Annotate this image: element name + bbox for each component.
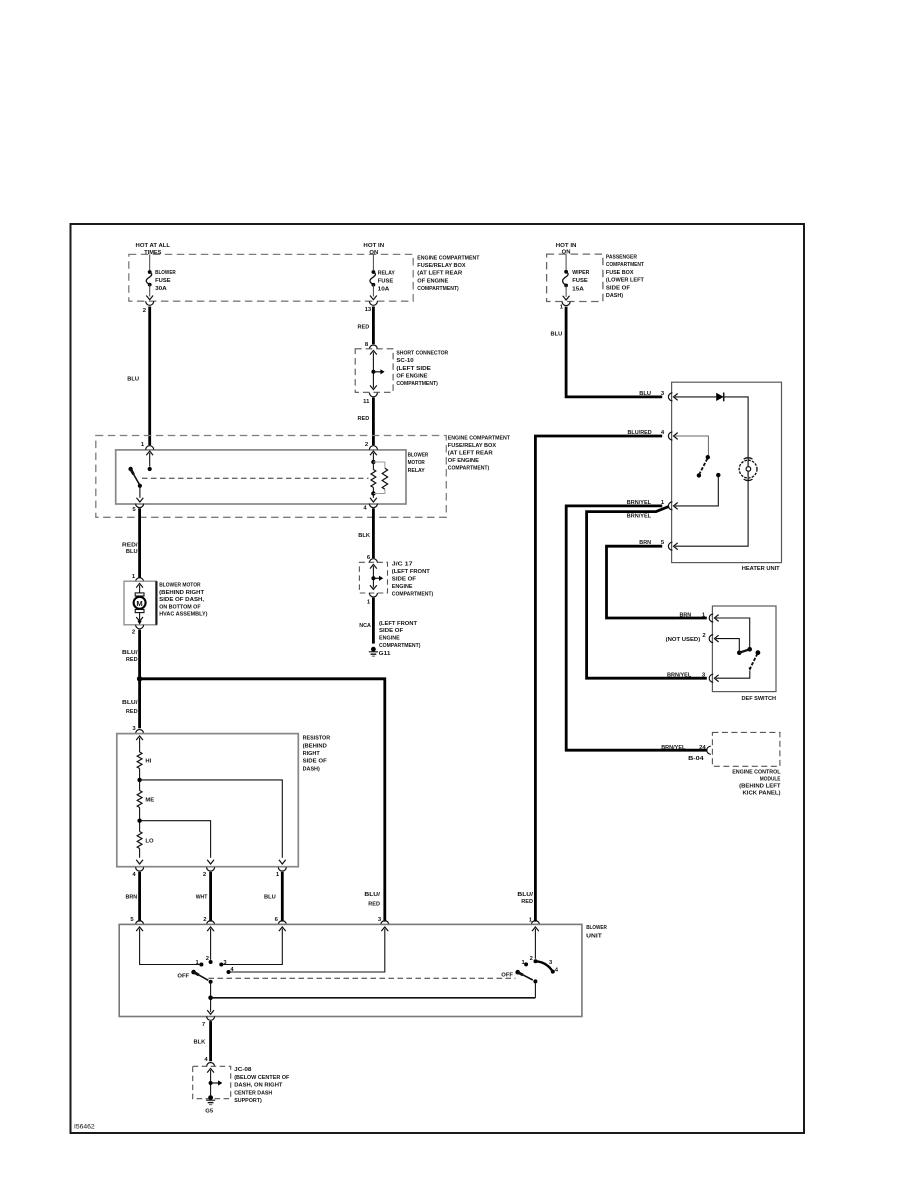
junction connector JC-08 (dashed box) — [193, 1066, 231, 1098]
svg-text:ENGINE: ENGINE — [392, 584, 413, 590]
relay coil — [371, 460, 388, 496]
blower unit pin 6 internal — [223, 927, 286, 965]
svg-text:HOT IN: HOT IN — [363, 243, 384, 249]
svg-text:SHORT CONNECTOR: SHORT CONNECTOR — [396, 351, 448, 357]
heater pin 1 connector — [627, 500, 673, 510]
svg-text:RED: RED — [358, 416, 370, 422]
node tap 1 — [137, 769, 141, 791]
speed switch bridge arc — [536, 960, 554, 971]
fuse lead wire — [149, 254, 151, 270]
connector pin 1 entry (blower motor) — [132, 574, 144, 582]
svg-text:SUPPORT): SUPPORT) — [234, 1098, 262, 1104]
svg-text:(NOT USED): (NOT USED) — [666, 637, 701, 643]
wire BLU blower-fuse to relay pin 1 — [148, 307, 151, 446]
connector pin 2 exit — [203, 867, 215, 878]
label JC-08 — [234, 1067, 290, 1104]
label HOT IN ON (wiper fuse) — [556, 243, 577, 256]
heater switch contact — [674, 473, 721, 509]
svg-text:JC-08: JC-08 — [234, 1067, 252, 1073]
svg-text:B-04: B-04 — [688, 756, 704, 762]
label BRN/YEL second — [627, 514, 652, 520]
def pin 3 internal — [714, 671, 749, 682]
svg-text:COMPARTMENT): COMPARTMENT) — [379, 643, 420, 649]
svg-text:RED: RED — [126, 709, 138, 715]
label BRN/YEL 24 B-04 — [661, 745, 706, 762]
svg-text:(BELOW CENTER OF: (BELOW CENTER OF — [234, 1075, 290, 1081]
svg-text:BLU/: BLU/ — [122, 700, 138, 706]
label BLU — [127, 377, 139, 383]
fuse lead wire — [565, 254, 567, 270]
wire NCA to ground G11 — [372, 598, 375, 644]
svg-text:HOT AT ALL: HOT AT ALL — [136, 243, 171, 249]
wire lamp to pin 5 — [674, 477, 749, 549]
resistor LO — [137, 832, 154, 849]
svg-text:SIDE OF: SIDE OF — [606, 285, 631, 291]
def switch arm — [748, 650, 760, 671]
svg-text:BLOWER: BLOWER — [155, 270, 176, 276]
svg-text:FUSE: FUSE — [378, 278, 394, 284]
svg-text:DASH): DASH) — [606, 293, 623, 299]
svg-text:(BEHIND LEFT: (BEHIND LEFT — [739, 784, 781, 790]
connector pin 1 exit — [276, 867, 286, 878]
svg-text:G5: G5 — [205, 1108, 214, 1114]
heater pin 3 connector — [639, 391, 672, 401]
def pin 3 connector — [667, 672, 713, 682]
svg-text:ENGINE CONTROL: ENGINE CONTROL — [732, 770, 781, 776]
svg-text:BLU: BLU — [127, 377, 139, 383]
blower unit pin 1 internal — [532, 927, 539, 959]
svg-text:30A: 30A — [155, 286, 168, 292]
svg-text:TIMES: TIMES — [144, 250, 161, 256]
def pin 2 connector — [666, 633, 714, 643]
def switch box — [712, 606, 776, 692]
svg-text:DASH, ON RIGHT: DASH, ON RIGHT — [234, 1083, 283, 1089]
svg-text:FUSE: FUSE — [572, 278, 588, 284]
svg-text:BLU/: BLU/ — [364, 892, 380, 898]
svg-text:11: 11 — [363, 399, 370, 405]
short connector SC-10 (dashed box) — [355, 349, 393, 393]
heater pin 4 connector — [628, 430, 673, 440]
resistor input — [136, 736, 143, 752]
svg-text:BLU/: BLU/ — [122, 650, 138, 656]
svg-text:COMPARTMENT): COMPARTMENT) — [448, 465, 489, 471]
connector pin 8 entry — [365, 342, 377, 349]
label ENGINE CONTROL MODULE — [732, 770, 781, 797]
svg-text:WIPER: WIPER — [572, 270, 590, 276]
svg-text:COMPARTMENT): COMPARTMENT) — [392, 592, 433, 598]
fan switch contact 1 — [195, 960, 203, 967]
switch common link wire — [211, 997, 536, 999]
label BLOWER UNIT — [586, 925, 607, 939]
fuse WIPER FUSE 15A — [563, 270, 568, 297]
svg-text:(AT LEFT REAR: (AT LEFT REAR — [448, 450, 494, 456]
svg-text:FUSE: FUSE — [155, 278, 171, 284]
svg-text:BRN: BRN — [126, 895, 138, 901]
svg-text:BLOWER: BLOWER — [408, 452, 429, 458]
wire BLU — [264, 872, 282, 922]
resistor box — [117, 734, 298, 867]
fan switch contact 2 — [206, 956, 213, 964]
svg-text:RIGHT: RIGHT — [303, 751, 321, 757]
label WIPER FUSE 15A — [572, 270, 590, 292]
wire BLU/RED branch to blower unit pin 3 — [140, 679, 385, 922]
svg-text:(BEHIND: (BEHIND — [303, 743, 327, 749]
svg-text:BLK: BLK — [358, 533, 370, 539]
label DEF SWITCH — [742, 696, 777, 702]
label BLOWER MOTOR — [159, 583, 207, 618]
label HEATER UNIT — [742, 566, 780, 572]
heater switch S1 — [697, 455, 710, 478]
label BLOWER MOTOR RELAY — [408, 452, 429, 473]
lamp L1 illumination bulb — [739, 458, 757, 481]
resistor HI — [137, 752, 151, 769]
svg-text:OFF: OFF — [177, 974, 189, 980]
svg-text:PASSENGER: PASSENGER — [606, 255, 638, 261]
svg-text:RED/: RED/ — [122, 542, 138, 548]
svg-text:G11: G11 — [379, 651, 391, 657]
svg-text:HOT IN: HOT IN — [556, 243, 577, 249]
svg-text:OF ENGINE: OF ENGINE — [448, 458, 479, 464]
svg-text:SIDE OF DASH,: SIDE OF DASH, — [159, 597, 204, 603]
label RELAY FUSE 10A — [378, 270, 395, 292]
svg-text:ME: ME — [145, 797, 154, 803]
heater unit box — [672, 382, 782, 562]
junction connector J/C 17 (dashed box) — [359, 562, 387, 593]
svg-text:2: 2 — [206, 956, 209, 962]
connector pin 1 exit — [367, 593, 377, 606]
svg-text:M: M — [136, 599, 142, 608]
wire RED relay-fuse to SC-10 pin 8 — [372, 307, 375, 345]
wire BLK blower unit to JC-08 — [194, 1021, 211, 1061]
fan switch arm — [177, 970, 212, 984]
SC-10 internal — [370, 350, 385, 389]
svg-text:ON BOTTOM OF: ON BOTTOM OF — [159, 604, 201, 610]
label BLU/RED — [122, 700, 138, 715]
label RED — [358, 416, 370, 422]
page border frame — [71, 224, 805, 1133]
svg-text:FUSE/RELAY BOX: FUSE/RELAY BOX — [417, 263, 465, 269]
connector pin 13 exit (relay fuse) — [365, 296, 378, 313]
svg-text:CENTER DASH: CENTER DASH — [234, 1090, 272, 1096]
svg-text:RED: RED — [368, 901, 380, 907]
passenger compartment fuse box (dashed) — [547, 254, 603, 301]
label SHORT CONNECTOR SC-10 — [396, 351, 448, 387]
svg-text:BLU/: BLU/ — [517, 892, 533, 898]
def switch wiper contact — [737, 649, 750, 655]
label HOT IN ON (relay fuse) — [363, 243, 384, 256]
svg-text:BLU: BLU — [639, 391, 651, 397]
node tap 2 — [137, 808, 141, 832]
resistor LO out — [136, 849, 143, 865]
svg-text:BLK: BLK — [194, 1039, 206, 1045]
label BLOWER FUSE 30A — [155, 270, 176, 292]
svg-text:BRN: BRN — [680, 612, 692, 618]
blower unit pin 5 internal — [136, 927, 199, 965]
wire BLK relay pin4 to J/C 17 — [372, 508, 375, 558]
svg-text:COMPARTMENT: COMPARTMENT — [606, 262, 644, 268]
svg-text:OF ENGINE: OF ENGINE — [396, 373, 427, 379]
heater pin 3 internal wire — [674, 394, 717, 401]
svg-text:SC-10: SC-10 — [396, 358, 414, 364]
label engine compartment fuse/relay box — [417, 256, 479, 292]
fan switch common — [208, 982, 213, 1012]
J/C 17 internal — [370, 564, 383, 589]
label engine compartment fuse/relay box 2 — [448, 435, 510, 471]
connector pin 1 exit (wiper fuse) — [560, 296, 570, 311]
connector pin 4 entry (JC-08) — [204, 1057, 214, 1067]
svg-text:OF ENGINE: OF ENGINE — [417, 278, 448, 284]
relay switch arm — [128, 467, 139, 486]
heater pin 4 internal wire — [674, 433, 709, 455]
wire BRN/YEL to def switch pin 3 — [587, 506, 707, 678]
label BLU/RED — [122, 650, 138, 663]
speed switch contact 1 — [521, 960, 528, 966]
svg-text:(AT LEFT REAR: (AT LEFT REAR — [417, 271, 463, 277]
svg-text:SIDE OF: SIDE OF — [303, 759, 328, 765]
svg-text:DEF SWITCH: DEF SWITCH — [742, 696, 777, 702]
svg-text:BRN/YEL: BRN/YEL — [627, 514, 652, 520]
relay fixed contact — [148, 467, 152, 471]
svg-text:RELAY: RELAY — [378, 270, 395, 276]
figure number I56462 — [74, 1125, 95, 1131]
connector pin 2 exit (blower motor) — [132, 625, 144, 636]
svg-text:RESISTOR: RESISTOR — [303, 736, 331, 742]
blower motor relay box — [116, 450, 406, 504]
svg-text:RED: RED — [358, 324, 370, 330]
OFF dashed line — [209, 977, 516, 979]
svg-text:10A: 10A — [378, 286, 391, 292]
label RED/BLU — [122, 542, 138, 555]
svg-text:MOTOR: MOTOR — [408, 460, 426, 466]
wire diode to lamp branch — [724, 397, 748, 461]
svg-text:I56462: I56462 — [74, 1125, 95, 1131]
svg-text:DASH): DASH) — [303, 766, 320, 772]
def pin 1 internal — [714, 615, 752, 652]
wire BLU wiper fuse to heater pin 3 — [566, 307, 662, 397]
svg-text:(LOWER LEFT: (LOWER LEFT — [606, 278, 644, 284]
relay pin 1 connector — [141, 442, 154, 466]
wire BRN — [126, 872, 140, 922]
svg-text:2: 2 — [530, 956, 533, 962]
relay moving contact — [137, 484, 144, 502]
wire BRN heater pin5 to def switch pin 1 — [607, 546, 707, 618]
label BLU/RED — [364, 892, 380, 907]
label BLU — [551, 331, 563, 337]
connector pin 3 entry (resistor) — [132, 726, 143, 733]
speed switch arm — [501, 970, 537, 984]
svg-text:BLU: BLU — [264, 895, 276, 901]
svg-text:15A: 15A — [572, 286, 585, 292]
diode D1 — [716, 393, 724, 402]
fuse RELAY FUSE 10A — [370, 270, 375, 296]
svg-text:SIDE OF: SIDE OF — [392, 577, 417, 583]
svg-text:(LEFT FRONT: (LEFT FRONT — [392, 569, 430, 575]
speed switch contact 4 — [551, 967, 559, 973]
speed switch contact 2 — [530, 956, 538, 963]
svg-text:OFF: OFF — [501, 973, 513, 979]
connector B-04 entry — [707, 746, 711, 754]
fuse BLOWER FUSE 30A — [146, 270, 151, 296]
wire tap to pin 2 — [140, 821, 214, 864]
svg-text:HEATER UNIT: HEATER UNIT — [742, 566, 780, 572]
svg-text:J/C 17: J/C 17 — [392, 562, 414, 568]
resistor ME — [137, 791, 154, 808]
wire BLU/RED motor to junction — [138, 630, 141, 729]
wire BLU/RED heater pin4 to blower unit — [535, 436, 662, 922]
label G11 location — [379, 621, 421, 657]
relay coil actuation dashed line — [142, 477, 369, 479]
blower unit pins entry — [130, 917, 539, 924]
svg-text:FUSE BOX: FUSE BOX — [606, 270, 634, 276]
label RESISTOR — [303, 736, 331, 773]
wire WHT — [196, 872, 211, 922]
wire BRN/YEL heater pin1 to ECM — [566, 506, 707, 750]
blower unit pin 2 internal — [207, 927, 214, 960]
svg-text:BRN/YEL: BRN/YEL — [667, 672, 692, 678]
svg-text:WHT: WHT — [196, 895, 208, 901]
svg-text:COMPARTMENT): COMPARTMENT) — [417, 286, 458, 292]
wire tap to pin 1 — [140, 780, 286, 864]
wire RED SC-10 to relay pin 2 — [372, 398, 375, 446]
svg-text:KICK PANEL): KICK PANEL) — [743, 790, 781, 796]
wire RED/BLU relay pin5 to blower motor — [138, 508, 141, 578]
svg-text:COMPARTMENT): COMPARTMENT) — [396, 381, 437, 387]
label HOT AT ALL TIMES — [136, 243, 171, 256]
fan switch contact 4 — [227, 967, 235, 974]
heater pin 5 connector — [639, 540, 672, 550]
svg-text:(BEHIND RIGHT: (BEHIND RIGHT — [159, 590, 204, 596]
svg-text:BLU: BLU — [126, 549, 138, 555]
junction node — [137, 676, 142, 681]
def pin 2 internal — [714, 635, 739, 650]
label RED — [358, 324, 370, 330]
svg-text:UNIT: UNIT — [586, 933, 602, 939]
blower unit pin 3 internal — [230, 927, 388, 972]
svg-text:BLOWER MOTOR: BLOWER MOTOR — [159, 583, 201, 589]
svg-text:RED: RED — [126, 657, 138, 663]
relay pin 4 connector — [363, 494, 377, 512]
svg-text:SIDE OF: SIDE OF — [379, 628, 404, 634]
label BLK — [358, 533, 370, 539]
ground G11 — [369, 647, 378, 656]
connector pin 4 exit — [132, 867, 143, 878]
def pin 1 connector — [680, 612, 714, 622]
svg-text:24: 24 — [699, 745, 706, 751]
svg-text:BLOWER: BLOWER — [586, 925, 607, 931]
JC-08 internal — [207, 1068, 222, 1095]
svg-text:BLU: BLU — [551, 331, 563, 337]
connector pin 6 entry — [367, 555, 377, 563]
svg-text:BRN/YEL: BRN/YEL — [661, 745, 686, 751]
relay pin 5 connector — [132, 504, 143, 513]
blower unit box — [119, 924, 582, 1016]
svg-text:ENGINE: ENGINE — [379, 636, 400, 642]
svg-text:(LEFT FRONT: (LEFT FRONT — [379, 621, 417, 627]
engine control module (dashed box) — [712, 732, 780, 766]
label passenger compartment fuse box — [606, 255, 644, 300]
engine compartment fuse/relay box (dashed, fuses) — [129, 254, 413, 301]
connector pin 2 exit (blower fuse) — [143, 296, 154, 314]
blower motor box — [124, 581, 156, 625]
svg-text:NCA: NCA — [359, 623, 371, 629]
blower unit pin 7 exit — [202, 1010, 215, 1028]
label NCA — [359, 623, 371, 629]
svg-text:HVAC ASSEMBLY): HVAC ASSEMBLY) — [159, 612, 207, 618]
svg-text:ENGINE COMPARTMENT: ENGINE COMPARTMENT — [417, 256, 479, 262]
label J/C 17 — [392, 562, 433, 598]
svg-text:RED: RED — [521, 899, 533, 905]
svg-text:13: 13 — [365, 307, 372, 313]
label BLU/RED right — [517, 892, 533, 905]
speed switch common — [534, 981, 536, 997]
svg-text:RELAY: RELAY — [408, 468, 425, 474]
ground G5 — [205, 1095, 215, 1114]
motor M1 blower motor — [134, 583, 146, 624]
svg-text:(LEFT SIDE: (LEFT SIDE — [396, 366, 431, 372]
connector pin 11 exit — [363, 393, 377, 405]
svg-text:ENGINE COMPARTMENT: ENGINE COMPARTMENT — [448, 435, 510, 441]
svg-text:MODULE: MODULE — [760, 777, 781, 783]
svg-text:FUSE/RELAY BOX: FUSE/RELAY BOX — [448, 443, 496, 449]
svg-text:LO: LO — [145, 838, 154, 844]
engine compartment fuse/relay box (dashed, relay) — [96, 436, 447, 518]
fuse lead wire — [372, 254, 374, 270]
svg-text:HI: HI — [145, 758, 151, 764]
fan switch contact 3 — [219, 960, 227, 967]
relay pin 2 connector — [365, 442, 377, 462]
